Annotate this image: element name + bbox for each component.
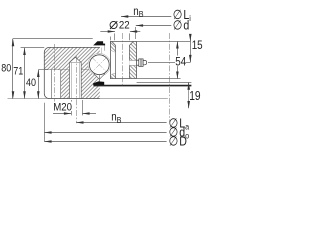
svg-text:M20: M20 xyxy=(53,101,72,114)
dim 80 xyxy=(12,39,14,99)
top seal (black) xyxy=(93,41,105,45)
extra tick x110 xyxy=(110,37,112,41)
ball diagonal centerlines xyxy=(92,58,106,72)
svg-text:80: 80 xyxy=(1,63,11,75)
phi-d extension xyxy=(135,27,137,39)
dim 19 xyxy=(188,82,190,108)
svg-text:∅D: ∅D xyxy=(169,134,187,149)
left extension y47.7 xyxy=(21,47,45,49)
left top extension y39 xyxy=(13,38,93,40)
54 with white bg xyxy=(175,56,186,67)
phi d leader xyxy=(136,25,172,27)
M20 dim xyxy=(53,113,71,115)
top gap between rings xyxy=(105,45,110,50)
M20 hole edge extensions xyxy=(71,100,73,115)
V groove below ball xyxy=(94,74,100,80)
dim 54 xyxy=(177,41,179,79)
ring split seam line xyxy=(44,69,69,71)
grease axis line y62.6 xyxy=(148,62,190,64)
svg-text:22: 22 xyxy=(119,20,130,32)
inner ring (right, sectioned): left sliver with raceway groove xyxy=(110,41,137,79)
white wedge below ball xyxy=(94,73,106,79)
thread core lines xyxy=(71,62,73,98)
M20 xyxy=(53,102,73,111)
svg-text:40: 40 xyxy=(26,77,36,89)
grease nipple xyxy=(137,60,139,65)
19 xyxy=(189,90,202,101)
top extension y43.2 to right xyxy=(137,41,191,43)
left edge extension down x44.3 xyxy=(44,103,46,142)
L_a row xyxy=(76,122,166,124)
15 xyxy=(191,40,203,50)
left extension y69.7 xyxy=(38,69,48,71)
extension line y82.4 xyxy=(137,82,192,84)
dim 40 xyxy=(38,70,40,99)
ball xyxy=(89,55,109,75)
bottom ring extension y78.8 to right xyxy=(137,78,181,80)
svg-text:71: 71 xyxy=(13,66,23,78)
dim 71 xyxy=(24,48,26,99)
bottom surface line y98.6 xyxy=(8,98,168,100)
phi22 xyxy=(110,21,117,29)
M20 tapped hole (white slot with drill point) xyxy=(70,57,82,98)
centerlines (dash-dot) xyxy=(54,44,56,103)
D row xyxy=(44,141,166,143)
outer ring (left, sectioned) xyxy=(44,47,100,98)
dim 15 xyxy=(190,35,192,63)
d_o row xyxy=(44,132,166,134)
grease hole through band xyxy=(129,60,136,65)
thick mounting line xyxy=(94,85,192,87)
nB top leader xyxy=(121,16,171,18)
phi22 dim xyxy=(100,31,115,33)
inner ring outlines xyxy=(110,41,112,79)
ball pocket cutout (white) in outer ring xyxy=(88,53,111,76)
svg-text:∅d: ∅d xyxy=(173,18,190,33)
outer ring outline xyxy=(44,47,100,98)
svg-text:54: 54 xyxy=(175,56,186,69)
bottom seal (black) xyxy=(93,81,104,85)
svg-text:15: 15 xyxy=(192,39,203,52)
svg-text:19: 19 xyxy=(189,90,200,103)
phi22 extension ticks xyxy=(114,33,116,40)
lower-half white zone + bolt hole slot in outer ring xyxy=(45,70,61,98)
